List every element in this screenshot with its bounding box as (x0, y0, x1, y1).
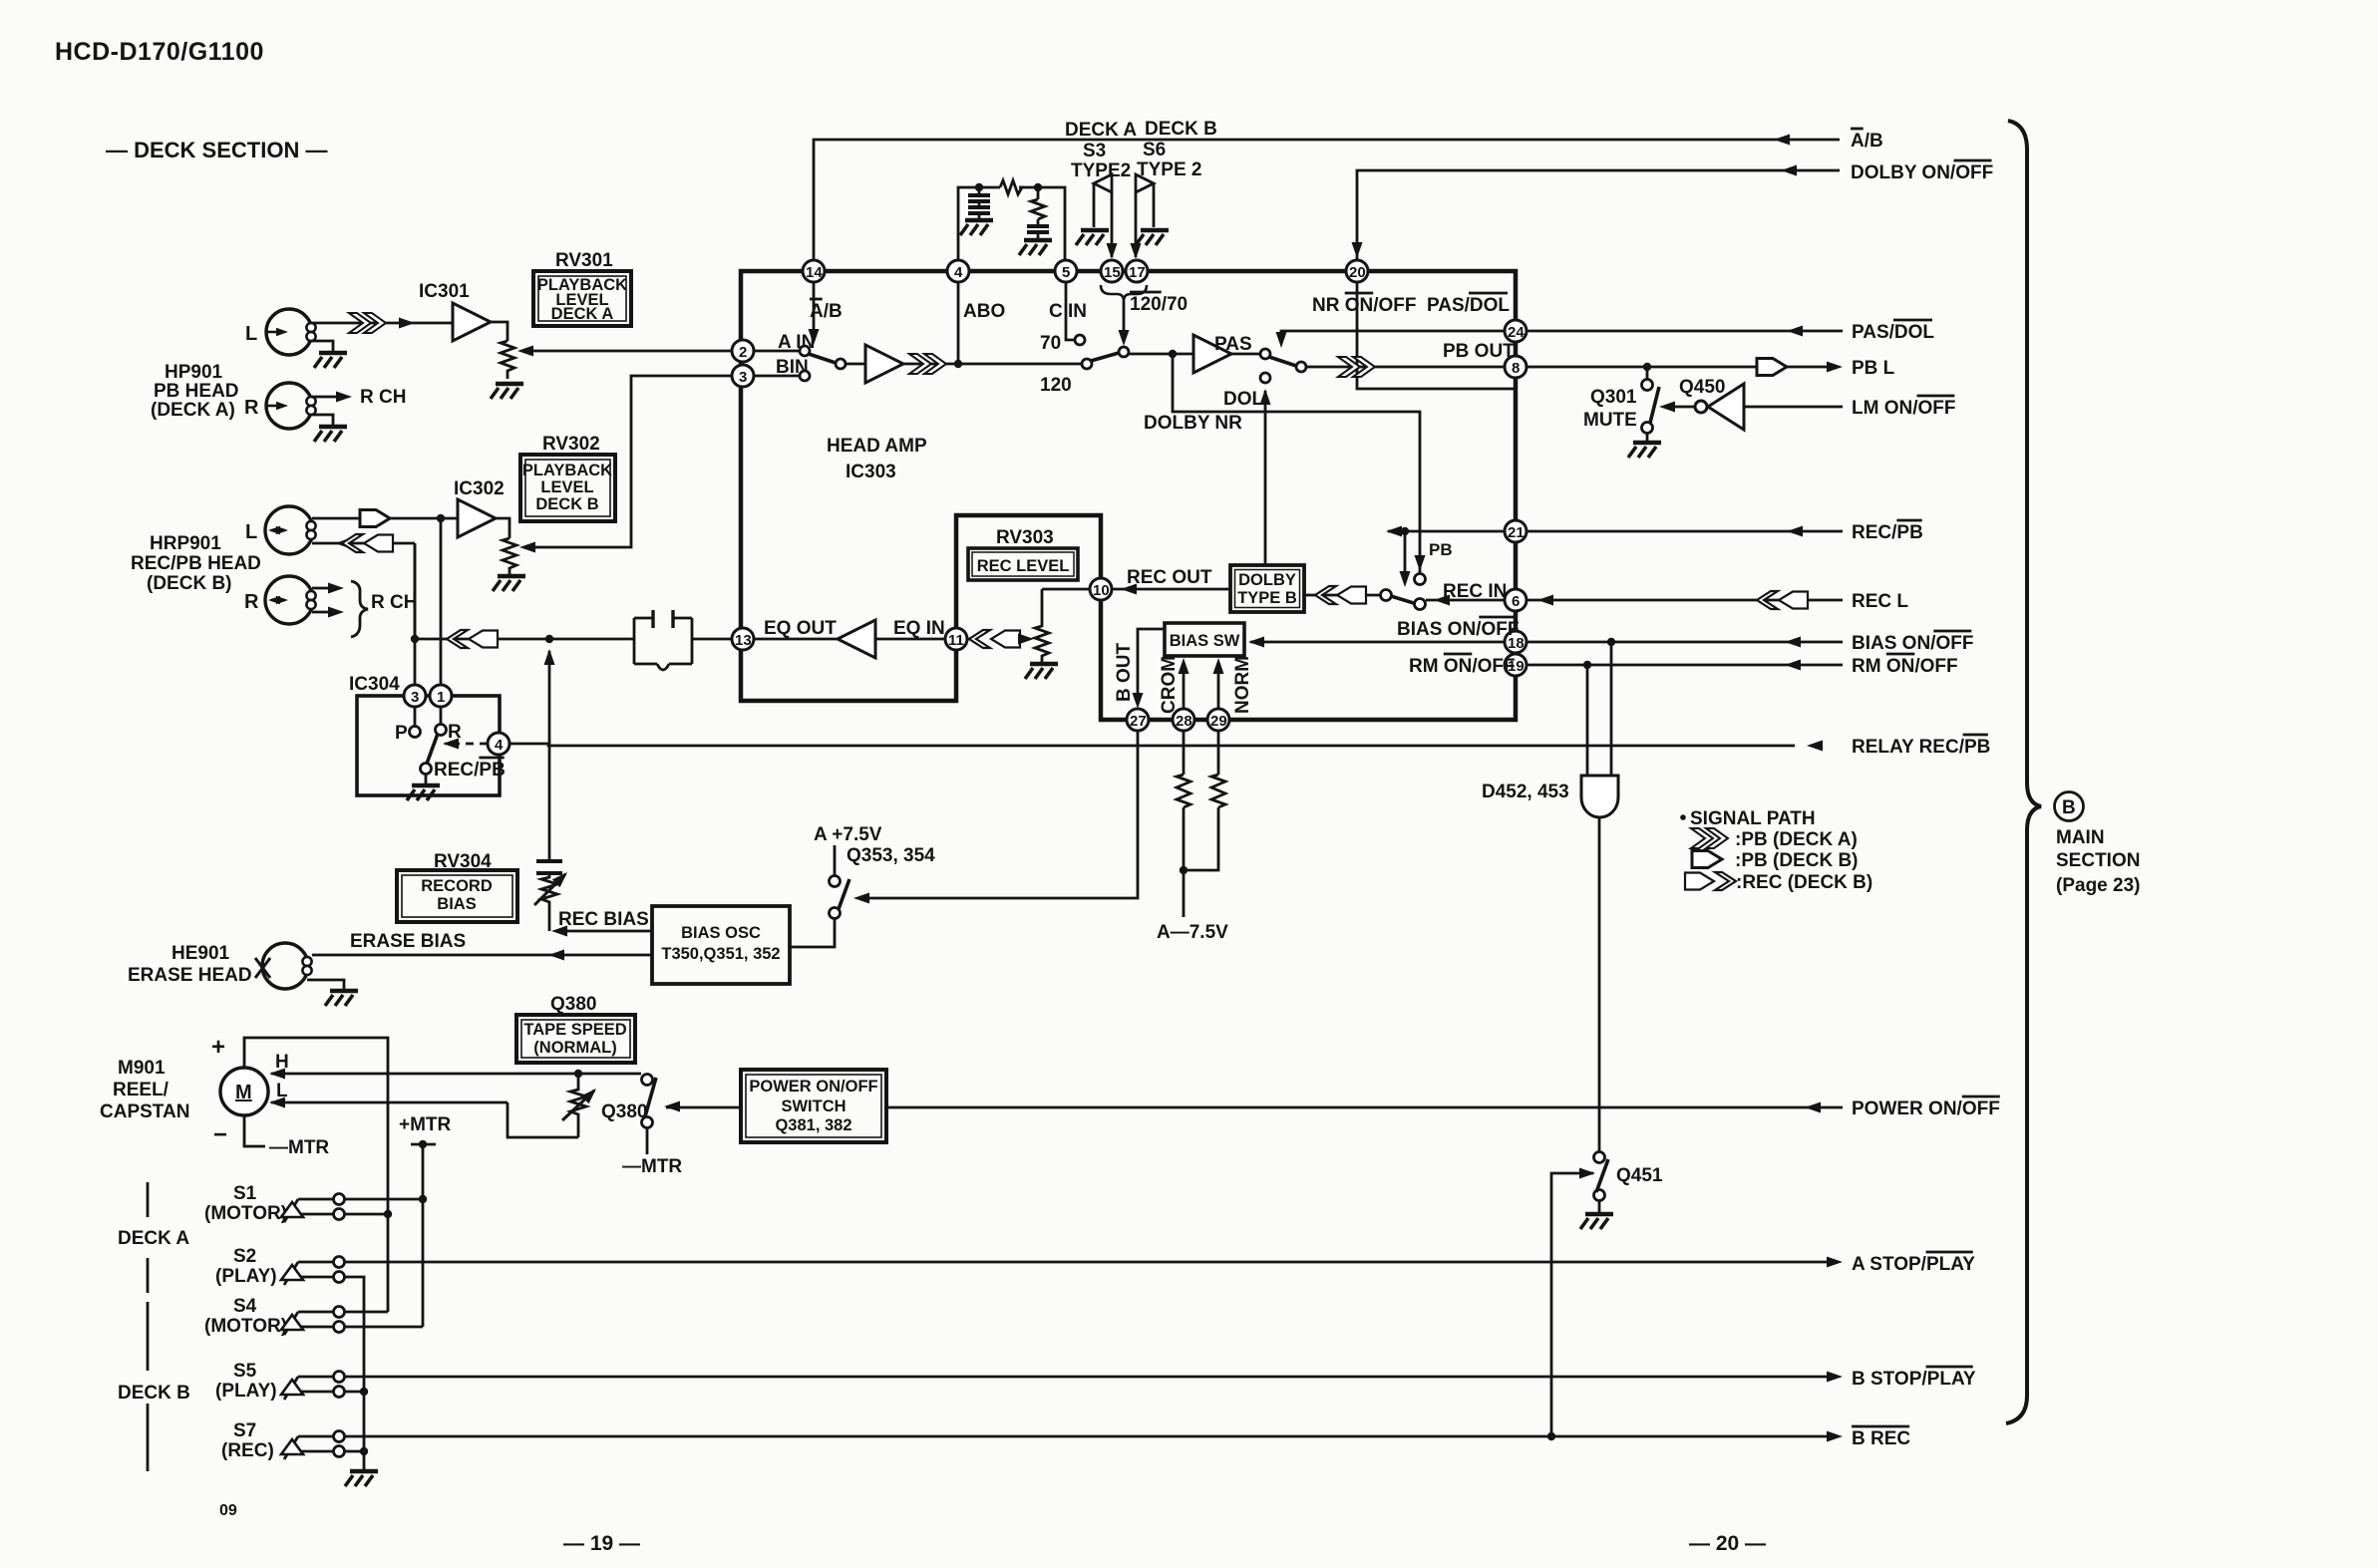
switch REC/PB common node (1415, 599, 1426, 610)
head HP901 R deck A (266, 383, 316, 429)
wire Q450 out to Q301 arm (1667, 406, 1695, 409)
box RECORD BIAS (397, 870, 517, 922)
node arrow B OUT into pin 27 (1133, 693, 1144, 709)
junction node Q380 top (574, 1070, 582, 1078)
resistor CROM branch (1177, 775, 1190, 807)
signal chevron REC deck B into L head (342, 534, 393, 552)
wire REC BIAS riser (548, 651, 551, 859)
wire L head to IC301 (311, 322, 453, 325)
resistor R right branch (1031, 187, 1045, 226)
svg-text:29: 29 (1210, 713, 1227, 730)
switch PAS/DOL contact PAS (1260, 349, 1270, 359)
svg-text:(DECK A): (DECK A) (151, 400, 235, 421)
wire EQ amp to pin 11 (875, 638, 945, 641)
svg-text:S4: S4 (233, 1296, 257, 1317)
svg-text:SWITCH: SWITCH (781, 1098, 846, 1115)
svg-text:13: 13 (735, 632, 752, 649)
svg-text:(REC): (REC) (221, 1440, 274, 1461)
junction node REC/PB select (1401, 527, 1409, 535)
pin 2 (732, 340, 754, 362)
op-amp IC301 (453, 303, 491, 341)
wire S1 upper to +MTR (345, 1198, 423, 1201)
pin 4 IC304 (488, 733, 510, 755)
svg-text:TYPE B: TYPE B (1237, 589, 1297, 607)
svg-text:5: 5 (1062, 264, 1070, 281)
wire S5 lower join (345, 1392, 364, 1451)
wire CROM resistor to A-7.5V (1183, 807, 1186, 917)
node arrow L input deck A (265, 328, 288, 336)
switch Q353 354 contact upper (830, 876, 841, 887)
pin 8 (1505, 356, 1527, 378)
label BIAS ON/OFF internal (1397, 617, 1519, 640)
svg-text:B REC: B REC (1852, 1428, 1910, 1449)
svg-text:27: 27 (1130, 713, 1147, 730)
svg-text:M901: M901 (118, 1058, 166, 1079)
inverter Q450 (1695, 384, 1744, 430)
wire erase head ground tap (307, 980, 344, 989)
switch IC304 arm (427, 734, 438, 764)
resistor NORM branch (1211, 775, 1225, 807)
svg-text:(NORMAL): (NORMAL) (533, 1039, 616, 1057)
svg-text:120/70: 120/70 (1130, 294, 1188, 315)
wire pin5 to 70 contact (1066, 282, 1074, 340)
switch 120/70 contact 70 (1075, 335, 1085, 345)
svg-text:4: 4 (954, 264, 963, 281)
svg-text:+: + (211, 1034, 225, 1061)
switch PAS/DOL arm (1269, 357, 1296, 366)
node arrow PB L out (1827, 362, 1843, 373)
label HRP901 REC/PB HEAD (DECK B) (131, 533, 261, 594)
svg-text:Q380: Q380 (601, 1101, 647, 1122)
label A/B right (1851, 129, 1883, 152)
op-amp EQ (IC303 internal) (838, 620, 875, 658)
label NR ON/OFF (1312, 293, 1417, 316)
svg-text:REC/PB: REC/PB (1852, 522, 1923, 543)
svg-text:BIAS ON/OFF: BIAS ON/OFF (1852, 633, 1973, 654)
wire L step to Q380 pot (508, 1102, 578, 1137)
svg-text:PAS/DOL: PAS/DOL (1852, 322, 1934, 343)
node arrows R CH deck B (328, 583, 344, 618)
svg-text:B: B (2062, 797, 2076, 818)
wire pin28 up to BIAS SW (1183, 666, 1186, 709)
switch S2 (PLAY) (215, 1246, 345, 1287)
svg-text:A/B: A/B (1851, 131, 1883, 152)
svg-text:RM ON/OFF: RM ON/OFF (1852, 656, 1958, 677)
svg-text:2: 2 (739, 344, 747, 361)
switch REC/PB contact PB (1415, 574, 1426, 585)
box DOLBY TYPE B (1230, 565, 1304, 612)
wire BIAS to D452 gate (1610, 646, 1613, 776)
wire pin13 to EQ amp (754, 638, 838, 641)
pin 27 (1127, 709, 1149, 731)
switch 120/70 contact 120 (1082, 359, 1092, 369)
svg-text:(MOTOR): (MOTOR) (204, 1316, 287, 1337)
svg-text:28: 28 (1176, 713, 1192, 730)
switch IC304 contact P (410, 707, 421, 738)
box RV301 PLAYBACK LEVEL DECK A (533, 250, 631, 326)
ground switch rail (345, 1471, 378, 1486)
potentiometer RV301 (501, 341, 514, 379)
node arrow RELAY REC/PB (1807, 741, 1823, 752)
switch S3 leaf (1094, 174, 1112, 257)
svg-text:POWER ON/OFF: POWER ON/OFF (749, 1078, 877, 1096)
switch PAS/DOL common node (1296, 362, 1306, 372)
junction node right RC branch (1034, 183, 1042, 191)
signal chevron REC deck B on EQ line (447, 630, 498, 648)
label REC/PB right (1852, 520, 1923, 543)
svg-text:−: − (213, 1121, 227, 1148)
op-amp IC302 (458, 499, 496, 537)
switch A/B select contact A (800, 346, 810, 356)
node arrow DOLBY NR into PB contact (1415, 555, 1426, 571)
pin 17 (1126, 260, 1148, 282)
svg-text:4: 4 (495, 737, 504, 754)
svg-text:DECK B: DECK B (118, 1383, 190, 1404)
junction node RM to D452 (1583, 661, 1591, 669)
svg-text:— 19 —: — 19 — (563, 1532, 640, 1555)
svg-text:S2: S2 (233, 1246, 256, 1267)
svg-text:ABO: ABO (963, 301, 1005, 322)
signal chevron PB deck A from L head (349, 313, 386, 333)
wire S4 lower to +MTR rail (345, 1326, 423, 1329)
node arrowhead Q380 pot (581, 1085, 600, 1103)
svg-text:8: 8 (1512, 360, 1520, 377)
label POWER ON/OFF (1852, 1097, 2000, 1119)
svg-text:H: H (275, 1052, 289, 1073)
wire pin10 internal to RV303 (1042, 588, 1090, 591)
wire L input motor (271, 1101, 508, 1104)
svg-text:BIAS OSC: BIAS OSC (681, 924, 761, 942)
junction node +MTR bar (419, 1140, 427, 1148)
svg-text:S1: S1 (233, 1183, 257, 1204)
svg-text:RV301: RV301 (555, 250, 613, 271)
svg-text:TAPE SPEED: TAPE SPEED (523, 1021, 626, 1039)
label BIAS ON/OFF right (1852, 631, 1973, 654)
wire NORM resistor join (1184, 807, 1218, 870)
svg-text::PB (DECK B): :PB (DECK B) (1735, 850, 1859, 871)
switch IC304 common REC/PB (421, 764, 432, 775)
switch 120/70 common node (1119, 347, 1129, 357)
brace R CH deck B (351, 581, 368, 637)
junction node REC BIAS on EQ line (545, 635, 553, 643)
node arrow into Q353 arm (853, 893, 869, 904)
pin 4 (947, 260, 969, 282)
label HE901 ERASE HEAD (128, 943, 252, 986)
wire DOLBY NR routing (1173, 354, 1420, 573)
wire +MTR rail (411, 1144, 436, 1327)
ground S3 (1076, 230, 1109, 245)
svg-text:A STOP/PLAY: A STOP/PLAY (1852, 1254, 1975, 1275)
svg-text:S6: S6 (1143, 140, 1166, 160)
node arrow B STOP/PLAY (1827, 1372, 1843, 1383)
wire pin 10 REC OUT (1112, 588, 1230, 591)
wire S1 lower to motor rail (345, 1213, 388, 1216)
svg-text:RV302: RV302 (542, 434, 600, 455)
wire motor plus rail (244, 1038, 388, 1312)
wire RV301 wiper to pin 2 (525, 350, 732, 353)
svg-text:IC302: IC302 (454, 478, 505, 499)
wire pin14 select arm (813, 282, 816, 337)
svg-text:11: 11 (948, 632, 964, 649)
potentiometer RV303 (1035, 589, 1049, 662)
svg-text:(Page 23): (Page 23) (2056, 875, 2140, 896)
wire S7 upper B REC (345, 1435, 1831, 1438)
node arrowhead RV304 (552, 868, 571, 887)
junction node S5 lower ground rail (360, 1388, 368, 1396)
svg-text:LM ON/OFF: LM ON/OFF (1852, 398, 1955, 419)
signal chevron PB deck A to PB OUT (1338, 357, 1375, 377)
diode gate D452 453 (1581, 776, 1618, 817)
node arrow NORM into BIAS SW (1213, 658, 1224, 674)
svg-text:T350,Q351, 352: T350,Q351, 352 (661, 945, 780, 963)
switch S3 label (1071, 141, 1131, 181)
svg-text:LEVEL: LEVEL (540, 478, 593, 496)
svg-text:ERASE HEAD: ERASE HEAD (128, 965, 252, 986)
svg-text:DOLBY NR: DOLBY NR (1144, 413, 1242, 434)
pin 19 (1505, 654, 1527, 676)
wire Q451 arm to B REC (1551, 1173, 1593, 1436)
node arrow into A/B line (1774, 135, 1790, 146)
svg-text:REC OUT: REC OUT (1127, 567, 1212, 588)
svg-text:NR ON/OFF: NR ON/OFF (1312, 295, 1417, 316)
svg-text:(DECK B): (DECK B) (147, 573, 232, 594)
svg-text:20: 20 (1349, 264, 1366, 281)
junction node S7 ground rail (360, 1447, 368, 1455)
svg-text:— 20 —: — 20 — (1689, 1532, 1766, 1555)
node arrow ERASE BIAS (548, 950, 564, 961)
svg-text::PB (DECK A): :PB (DECK A) (1735, 829, 1858, 850)
brace main section (2006, 121, 2041, 1423)
wire amp to 120 contact (903, 363, 1081, 366)
svg-text:EQ IN: EQ IN (893, 618, 945, 639)
svg-text:RV303: RV303 (996, 527, 1054, 548)
svg-text:S3: S3 (1083, 141, 1106, 161)
potentiometer RV302 (503, 538, 516, 574)
node arrow select IC304 (443, 739, 459, 750)
signal chevron PB deck A after amp (909, 354, 946, 374)
pin 20 (1346, 260, 1368, 282)
node arrow into -MTR arm (664, 1101, 680, 1112)
svg-text:B OUT: B OUT (1114, 643, 1135, 703)
node arrow select to arm (1400, 571, 1411, 587)
label RM ON/OFF right (1852, 654, 1958, 677)
node arrow 120/70 to switch (1119, 330, 1130, 346)
svg-text:DOL: DOL (1223, 389, 1264, 410)
wire L head deck B rec return (312, 542, 415, 545)
wire pin4 to pin5 RC top rail (958, 187, 1065, 271)
wire R head to R CH (311, 396, 344, 399)
svg-text:09: 09 (219, 1502, 237, 1519)
svg-text:3: 3 (411, 689, 419, 706)
svg-text:RM ON/OFF: RM ON/OFF (1409, 656, 1516, 677)
svg-text:R: R (244, 397, 259, 419)
label DOLBY ON/OFF (1851, 160, 1993, 183)
switch Q451 contact upper (1594, 1152, 1605, 1163)
switch Q353 354 arm (839, 879, 849, 909)
wire pin4 down to signal line (957, 282, 960, 364)
legend chevron REC deck B (1685, 872, 1872, 893)
wire dashed select IC304 (445, 743, 488, 746)
wire pin29 NORM resistor branch (1217, 731, 1220, 775)
node double arrow L deck B (268, 526, 288, 534)
junction node pin4 tap (954, 360, 962, 368)
wire R head ground tap (311, 415, 333, 425)
wire pin 24 PAS/DOL external (1527, 330, 1843, 333)
wire BIAS OSC to Q353 switch (790, 919, 835, 947)
svg-text:14: 14 (806, 264, 823, 281)
op-amp IC303 head amp box outline (741, 271, 1516, 720)
svg-text:24: 24 (1508, 324, 1525, 341)
wire A/B top feed (814, 140, 1840, 271)
node arrow BIAS ON/OFF external (1785, 637, 1801, 648)
resistor R top rail (1000, 180, 1022, 194)
node arrow into DOL contact (1260, 389, 1271, 405)
node arrow into REC common (1434, 595, 1450, 606)
node arrow R input deck A (265, 402, 288, 410)
switch A/B common node (836, 359, 846, 369)
ground RV302 (493, 576, 525, 591)
junction node S1 +MTR (419, 1195, 427, 1203)
motor M901 (220, 1068, 268, 1115)
ground left cap branch (960, 220, 993, 235)
svg-text:DECK A: DECK A (1065, 120, 1137, 141)
ground RV303 (1025, 664, 1058, 679)
pin 10 (1090, 578, 1112, 600)
label DECK B group (118, 1302, 190, 1471)
wire LM ON/OFF to Q450 (1744, 406, 1843, 409)
switch S6 label (1137, 140, 1201, 180)
svg-text:IC303: IC303 (846, 462, 896, 482)
junction node A-7.5V (1180, 866, 1188, 874)
svg-text:PB L: PB L (1852, 358, 1895, 379)
wire pin29 up to BIAS SW (1217, 666, 1220, 709)
label B REC (1852, 1426, 1910, 1449)
switch S4 (MOTOR) (204, 1296, 345, 1337)
ground Q301 (1628, 443, 1661, 458)
node arrow RV302 wiper (519, 542, 535, 553)
pin 3 IC304 (404, 685, 426, 707)
svg-text:PAS/DOL: PAS/DOL (1427, 295, 1510, 316)
wire DOLBY ON/OFF feed (1357, 170, 1840, 260)
svg-text:IC304: IC304 (349, 674, 400, 695)
node arrow L into motor (269, 1098, 285, 1108)
ground IC304 (407, 785, 440, 800)
svg-text:Q301: Q301 (1590, 387, 1637, 408)
wire 120/70 select (1123, 301, 1126, 339)
ground erase head (325, 991, 358, 1006)
svg-text::REC (DECK B): :REC (DECK B) (1736, 872, 1872, 893)
svg-text:Q381, 382: Q381, 382 (775, 1116, 851, 1134)
switch -MTR contact upper (642, 1075, 653, 1086)
wire S2 upper A STOP/PLAY (345, 1261, 1831, 1264)
wire S7 lower join ground (345, 1451, 364, 1469)
svg-text:HP901: HP901 (165, 362, 223, 383)
svg-text:DECK B: DECK B (535, 495, 598, 513)
junction node DOLBY NR tap (1169, 350, 1177, 358)
box BIAS OSC T350 Q351 352 (652, 906, 790, 984)
wire -MTR below switch (646, 1127, 649, 1154)
wire pin28 CROM resistor branch (1183, 731, 1186, 775)
junction node head return (411, 635, 419, 643)
node arrow A/B select (809, 329, 820, 345)
node arrow RV301 wiper (517, 346, 533, 357)
node X erase head (255, 958, 270, 978)
svg-text:DECK A: DECK A (551, 305, 614, 323)
switch REC/PB contact left (1381, 590, 1392, 601)
wire RV302 wiper to pin 3 (527, 376, 732, 547)
svg-text:—MTR: —MTR (622, 1156, 682, 1177)
svg-text:REC/PB HEAD: REC/PB HEAD (131, 553, 261, 574)
switch A/B select arm (809, 354, 836, 363)
junction node S1 motor rail (384, 1210, 392, 1218)
signal chevron REC deck B into DOLBY (1315, 586, 1366, 604)
op-amp PAS (1193, 335, 1231, 373)
wire S2 lower to ground rail (345, 1277, 364, 1392)
legend SIGNAL PATH (1680, 808, 1815, 829)
svg-text:BIAS: BIAS (437, 895, 476, 913)
wire pin 21 REC/PB external (1527, 530, 1843, 533)
svg-text:TYPE2: TYPE2 (1071, 160, 1131, 181)
wire S4 upper to motor rail (345, 1311, 388, 1314)
node arrow R CH (336, 392, 352, 403)
node arrow into Q451 arm (1579, 1168, 1595, 1179)
svg-text:HRP901: HRP901 (150, 533, 221, 554)
pin 21 (1505, 520, 1527, 542)
node arrow REC BIAS left (551, 926, 567, 937)
wire REC BIAS from BIAS OSC (561, 930, 652, 933)
svg-text:6: 6 (1512, 593, 1520, 610)
signal chevron REC deck B at pin 11 (967, 638, 1026, 641)
svg-text:BIAS ON/OFF: BIAS ON/OFF (1397, 619, 1519, 640)
svg-text:1: 1 (437, 689, 445, 706)
wire select to arm (1404, 535, 1407, 579)
node arrow REC BIAS up (544, 649, 555, 665)
label DECK A group (118, 1182, 189, 1293)
svg-text:L: L (245, 521, 257, 543)
svg-text:Q353, 354: Q353, 354 (847, 845, 935, 866)
pin 6 (1505, 589, 1527, 611)
head HRP901 L deck B (265, 506, 316, 554)
node arrow S3 to pin 15 (1107, 243, 1118, 259)
ground L head deck A (314, 353, 347, 368)
svg-text:L: L (245, 323, 257, 345)
wire R head deck B taps (312, 588, 336, 612)
switch -MTR arm (645, 1078, 656, 1116)
svg-text:— DECK SECTION —: — DECK SECTION — (106, 138, 327, 162)
wire pin 21 REC/PB select (1388, 530, 1505, 533)
switch S7 (REC) (221, 1420, 345, 1461)
wire D452 out to Q451 (1598, 818, 1601, 1151)
switch PAS/DOL contact DOL (1260, 373, 1270, 383)
wire motor minus tail (244, 1115, 265, 1146)
node arrow REC/PB select left end (1386, 526, 1402, 537)
label PAS/DOL internal (1427, 293, 1510, 316)
switch Q451 arm (1596, 1159, 1608, 1192)
node arrow into BIAS SW (1248, 637, 1264, 648)
label HP901 PB HEAD (DECK A) (151, 362, 239, 421)
svg-text:DOLBY: DOLBY (1238, 571, 1296, 589)
svg-text:120: 120 (1040, 375, 1072, 396)
switch 120/70 arm (1091, 353, 1119, 361)
switch -MTR contact lower (642, 1117, 653, 1128)
pin 24 (1505, 320, 1527, 342)
wire pin2 to A contact (754, 350, 799, 353)
node arrow PAS/DOL select (1276, 332, 1287, 348)
svg-text:ERASE BIAS: ERASE BIAS (350, 931, 466, 952)
switch S5 (PLAY) (215, 1361, 345, 1402)
node arrow CROM into BIAS SW (1179, 658, 1189, 674)
svg-text:P: P (395, 723, 408, 744)
